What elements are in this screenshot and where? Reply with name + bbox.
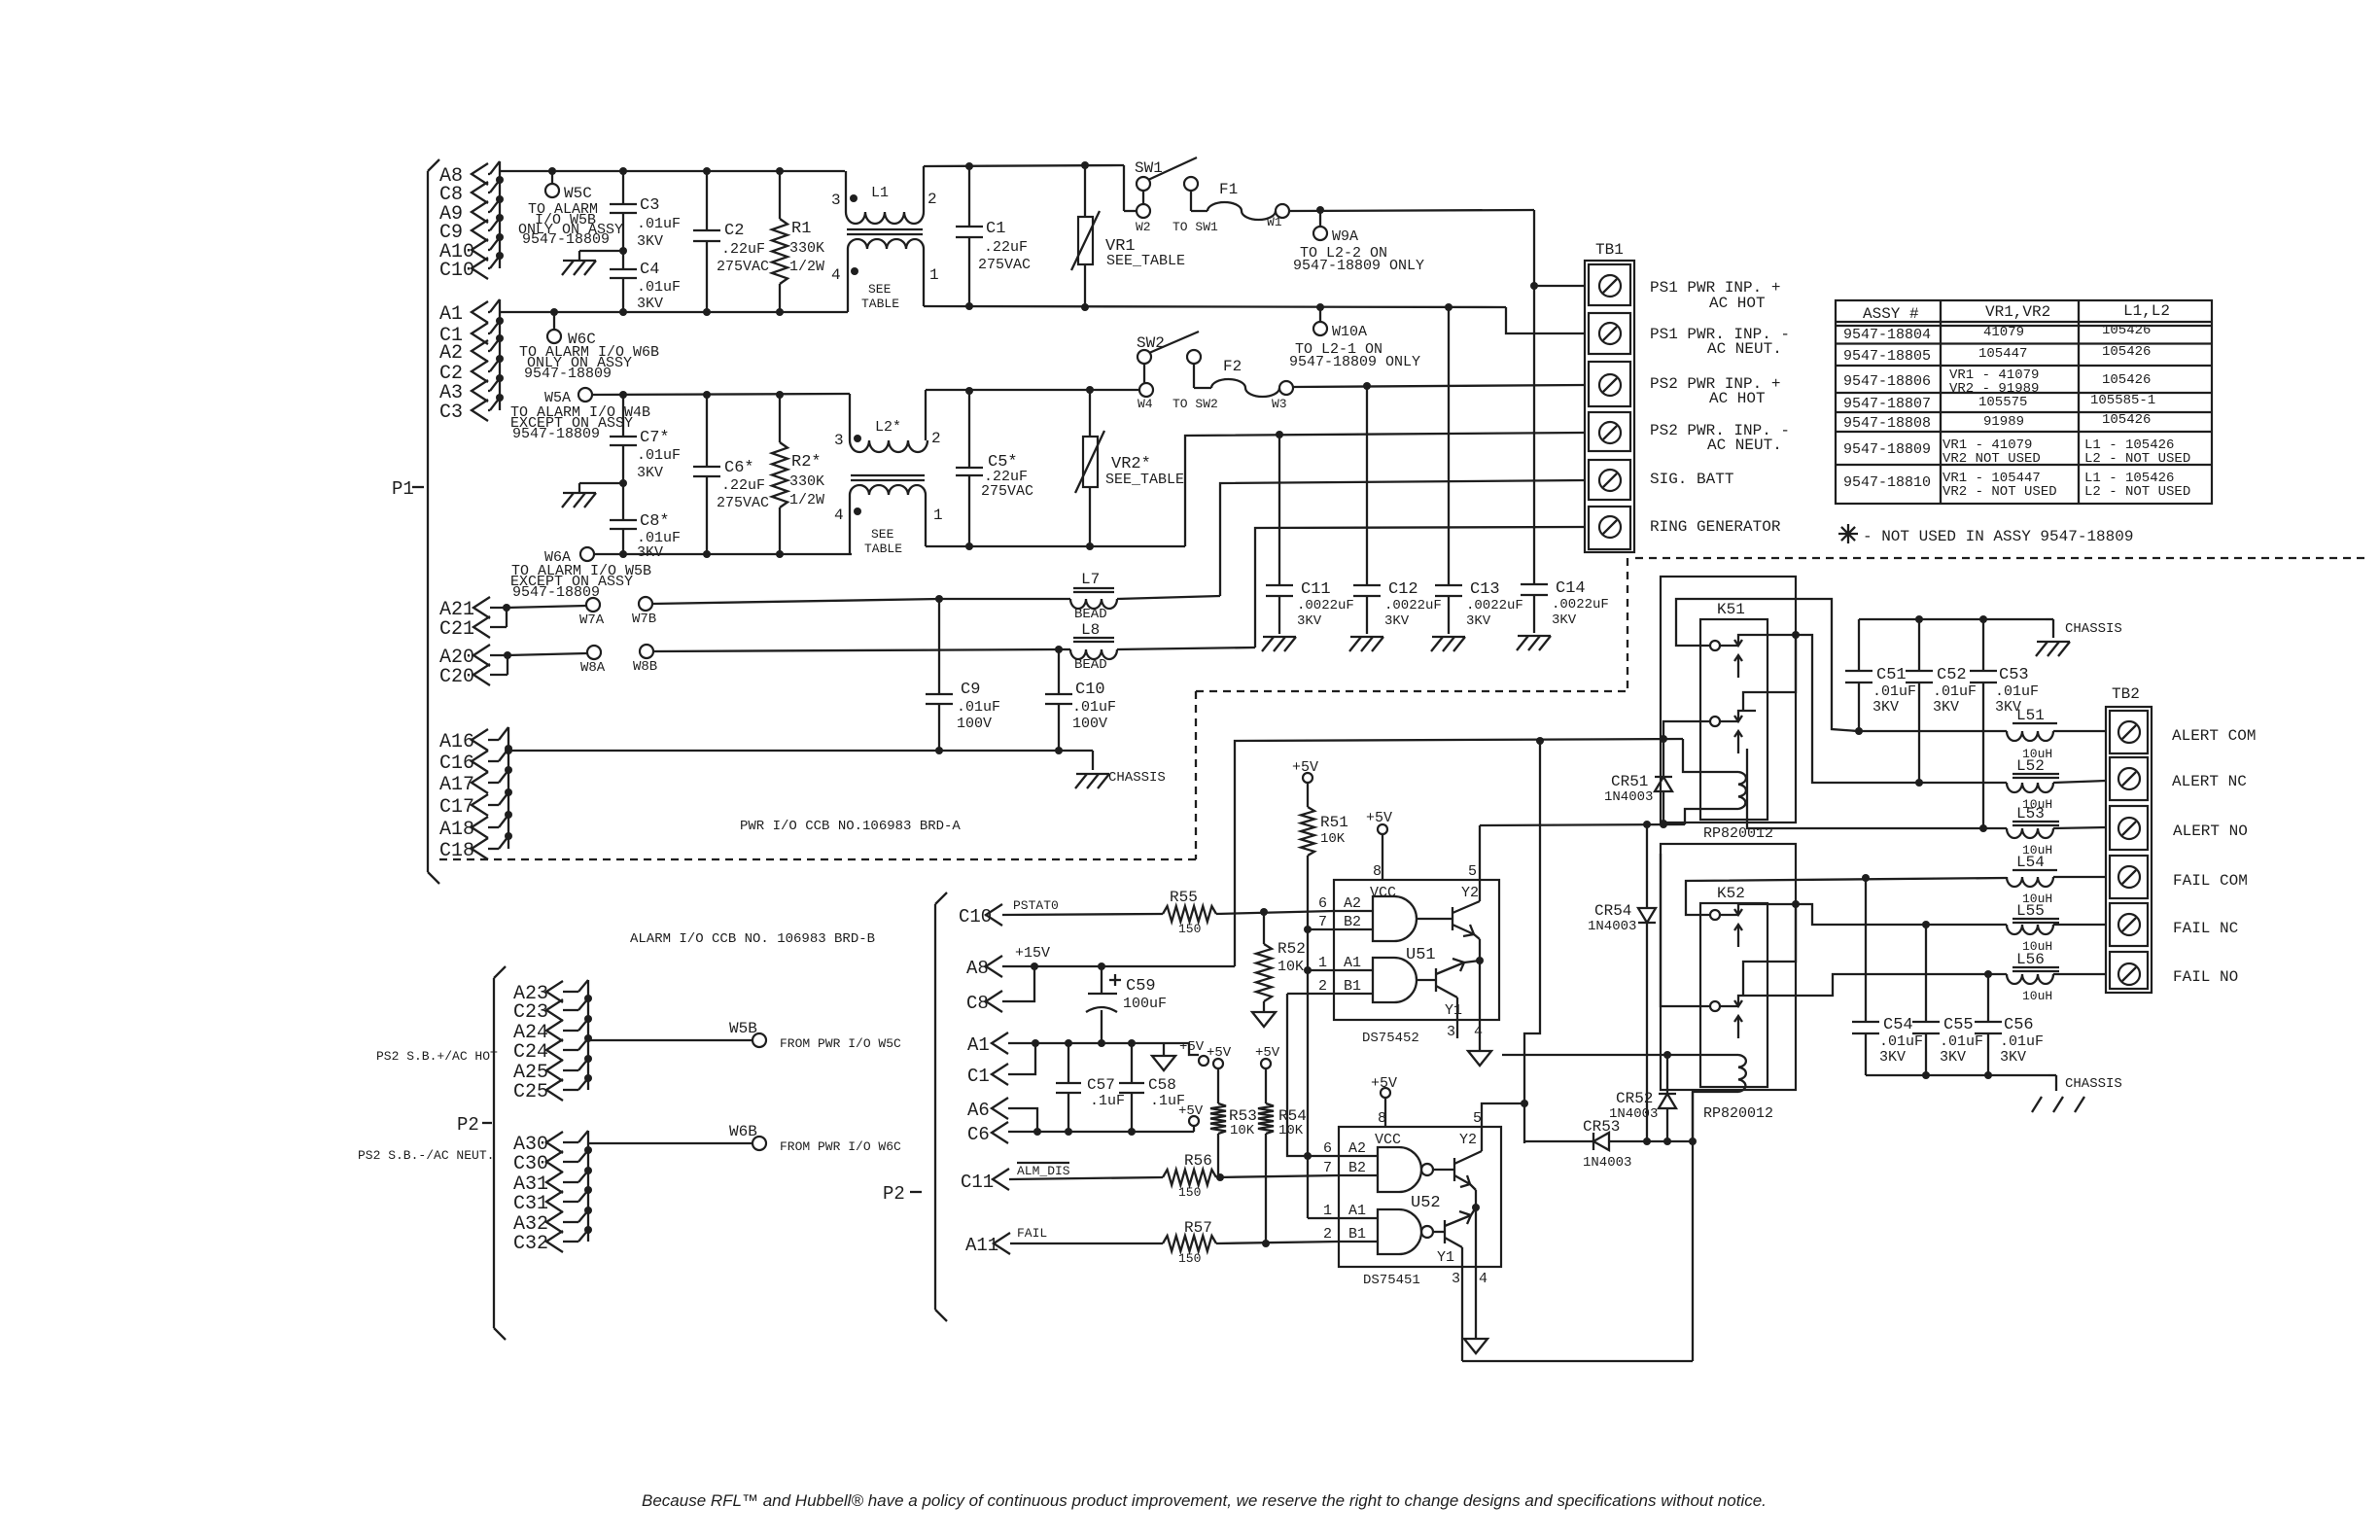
svg-text:RING GENERATOR: RING GENERATOR xyxy=(1650,518,1781,536)
svg-text:1: 1 xyxy=(929,266,939,284)
jumper W7B xyxy=(632,597,656,627)
svg-text:3KV: 3KV xyxy=(637,296,663,312)
capacitor C54 xyxy=(1852,878,1923,1075)
svg-text:3KV: 3KV xyxy=(1872,699,1899,716)
wire L1 pin1 secondary return xyxy=(924,302,1506,311)
svg-text:TO SW1: TO SW1 xyxy=(1172,220,1218,234)
svg-text:CHASSIS: CHASSIS xyxy=(1108,770,1166,786)
svg-text:VCC: VCC xyxy=(1375,1132,1401,1148)
svg-text:9547-18804: 9547-18804 xyxy=(1843,327,1931,343)
svg-text:3KV: 3KV xyxy=(1940,1049,1966,1066)
wire U51 B2 stub xyxy=(1308,928,1334,930)
capacitor C55 xyxy=(1912,925,1983,1075)
svg-text:R56: R56 xyxy=(1184,1152,1212,1170)
svg-text:L52: L52 xyxy=(2016,757,2045,775)
svg-text:C6: C6 xyxy=(967,1124,990,1145)
svg-text:3KV: 3KV xyxy=(1384,613,1410,629)
ground chassis row2 xyxy=(562,479,627,507)
svg-text:C1: C1 xyxy=(986,220,1005,238)
svg-text:CR51: CR51 xyxy=(1611,773,1648,790)
svg-text:4: 4 xyxy=(831,266,841,284)
resistor R57 xyxy=(1163,1219,1339,1266)
svg-text:3KV: 3KV xyxy=(2000,1049,2026,1066)
svg-text:ALARM I/O CCB NO. 106983 BRD-B: ALARM I/O CCB NO. 106983 BRD-B xyxy=(630,931,875,947)
svg-text:B2: B2 xyxy=(1344,914,1361,930)
U51 gate 2 AND xyxy=(1334,958,1436,1002)
transformer L1 xyxy=(831,166,939,312)
svg-text:9547-18809: 9547-18809 xyxy=(512,584,600,601)
svg-text:.01uF: .01uF xyxy=(1872,683,1916,700)
svg-text:W8B: W8B xyxy=(633,659,657,675)
svg-text:105585-1: 105585-1 xyxy=(2090,393,2155,408)
svg-text:C2: C2 xyxy=(724,222,744,240)
P2 pin A11 FAIL xyxy=(965,1226,1163,1256)
svg-text:+15V: +15V xyxy=(1015,945,1050,962)
svg-text:9547-18807: 9547-18807 xyxy=(1843,396,1931,412)
svg-text:B1: B1 xyxy=(1344,978,1361,995)
svg-text:.0022uF: .0022uF xyxy=(1384,598,1442,613)
svg-text:L51: L51 xyxy=(2016,707,2045,724)
fuse F1 xyxy=(1207,181,1289,229)
svg-text:.01uF: .01uF xyxy=(1933,683,1977,700)
svg-text:AC HOT: AC HOT xyxy=(1709,295,1766,312)
svg-text:L8: L8 xyxy=(1081,621,1100,639)
svg-text:C10: C10 xyxy=(439,260,474,282)
label RP820012 K52 xyxy=(1703,1105,1773,1122)
ground under C12 xyxy=(1349,637,1383,651)
svg-text:L2 - NOT USED: L2 - NOT USED xyxy=(2084,451,2190,467)
svg-text:150: 150 xyxy=(1178,922,1201,936)
wire C54 rail to chassis lower xyxy=(1866,1071,2048,1079)
svg-text:VR2 - NOT USED: VR2 - NOT USED xyxy=(1942,484,2057,500)
jumper W10A xyxy=(1313,307,1367,340)
svg-text:C14: C14 xyxy=(1556,579,1586,598)
svg-text:C10: C10 xyxy=(1075,681,1105,699)
label TB2 terminal names xyxy=(2172,727,2256,986)
svg-text:A2: A2 xyxy=(1344,895,1361,912)
svg-text:9547-18806: 9547-18806 xyxy=(1843,373,1931,390)
capacitor C57 xyxy=(1056,1043,1125,1132)
svg-text:3KV: 3KV xyxy=(637,465,663,481)
P2 pins A1 C1 xyxy=(967,1032,1039,1087)
P1 pins A1 C1 A2 C2 A3 C3 xyxy=(439,299,504,424)
svg-text:W4: W4 xyxy=(1137,397,1153,411)
svg-text:C56: C56 xyxy=(2004,1016,2034,1034)
svg-text:SW1: SW1 xyxy=(1135,159,1163,177)
svg-text:.01uF: .01uF xyxy=(957,699,1000,716)
svg-text:C52: C52 xyxy=(1937,666,1967,684)
resistor R51 pullup net xyxy=(1292,759,1348,1156)
P1 pins A8 C8 A9 C9 A10 C10 xyxy=(439,161,504,282)
P2 pin C11 ALM_DIS xyxy=(961,1163,1163,1193)
ground under C11 xyxy=(1262,637,1296,651)
svg-text:DS75451: DS75451 xyxy=(1363,1273,1420,1288)
svg-text:TABLE: TABLE xyxy=(864,542,902,556)
svg-text:C24: C24 xyxy=(513,1041,548,1064)
svg-text:.22uF: .22uF xyxy=(721,477,765,494)
connector P2 bracket (pwr board) xyxy=(457,966,506,1340)
svg-text:.22uF: .22uF xyxy=(721,241,765,258)
resistor R53 pullup xyxy=(1207,1045,1257,1177)
wire F1 to TB1-1 xyxy=(1289,206,1585,290)
svg-text:10K: 10K xyxy=(1278,1123,1304,1138)
svg-text:275VAC: 275VAC xyxy=(717,495,769,511)
jumper W5A with feed rail row2 xyxy=(544,388,850,406)
U52 gate 1 NAND xyxy=(1339,1147,1454,1192)
svg-text:BEAD: BEAD xyxy=(1074,607,1107,622)
U52 transistor Y1 xyxy=(1445,1204,1480,1361)
svg-text:.1uF: .1uF xyxy=(1090,1093,1125,1109)
jumper W6C xyxy=(547,312,596,348)
svg-text:SIG. BATT: SIG. BATT xyxy=(1650,471,1733,488)
svg-text:C3: C3 xyxy=(640,196,659,215)
U52 pin labels xyxy=(1323,1110,1487,1287)
wire K52 contact2 feed xyxy=(1661,854,1710,1006)
diode CR51 xyxy=(1604,739,1672,827)
switch SW1 xyxy=(1124,157,1218,234)
capacitor C12 xyxy=(1353,386,1442,634)
svg-text:3KV: 3KV xyxy=(1466,613,1491,629)
wire K52 NO throw to FAIL NC xyxy=(1743,900,2007,996)
svg-text:U52: U52 xyxy=(1411,1194,1441,1212)
svg-text:AC NEUT.: AC NEUT. xyxy=(1707,437,1782,454)
wire +15V rail xyxy=(1002,962,1235,970)
svg-text:C7*: C7* xyxy=(640,429,670,447)
wire row1 neutral to TB1-2 xyxy=(1506,307,1585,333)
label PS2 S.B.-/AC NEUT. xyxy=(358,1148,494,1163)
svg-text:SEE_TABLE: SEE_TABLE xyxy=(1105,472,1184,488)
resistor R56 xyxy=(1163,1152,1339,1200)
note TO L2-2 ON xyxy=(1293,245,1424,274)
connector P2 bracket (alarm board) xyxy=(883,892,947,1321)
svg-text:Y1: Y1 xyxy=(1437,1249,1454,1266)
P1 pins A20 C20 xyxy=(439,645,511,688)
svg-text:3KV: 3KV xyxy=(637,233,663,250)
relay K52 coil xyxy=(1667,1055,1746,1141)
svg-text:150: 150 xyxy=(1178,1185,1201,1200)
wire K51 contact2 feed jog xyxy=(1663,721,1710,739)
svg-text:330K: 330K xyxy=(789,473,824,490)
svg-text:1N4003: 1N4003 xyxy=(1588,919,1636,934)
svg-text:AC NEUT.: AC NEUT. xyxy=(1707,340,1782,358)
svg-text:.01uF: .01uF xyxy=(637,216,681,232)
svg-text:9547-18809: 9547-18809 xyxy=(522,231,610,248)
svg-text:K51: K51 xyxy=(1717,601,1745,618)
note TO ALARM I/O W5B xyxy=(518,201,623,248)
ground chassis row1 xyxy=(562,247,627,275)
svg-text:TB1: TB1 xyxy=(1595,241,1624,259)
svg-text:1/2W: 1/2W xyxy=(789,259,824,275)
svg-text:3: 3 xyxy=(1447,1024,1455,1040)
svg-text:FAIL: FAIL xyxy=(1017,1226,1047,1241)
svg-text:C9: C9 xyxy=(961,681,980,699)
fuse F2 xyxy=(1211,358,1293,411)
svg-text:L1,L2: L1,L2 xyxy=(2123,302,2170,320)
svg-text:L2*: L2* xyxy=(875,419,901,436)
svg-text:W2: W2 xyxy=(1136,220,1151,234)
label RP820012 K51 xyxy=(1703,825,1773,842)
P2 pins A30 C30 A31 C31 A32 C32 xyxy=(513,1131,592,1255)
svg-text:CHASSIS: CHASSIS xyxy=(2065,621,2122,637)
capacitor C14 xyxy=(1521,286,1609,633)
svg-text:9547-18810: 9547-18810 xyxy=(1843,474,1931,491)
diode CR54 xyxy=(1588,824,1656,1145)
svg-text:1N4003: 1N4003 xyxy=(1583,1155,1631,1171)
power +5V at A6 rail end xyxy=(1178,1103,1204,1132)
svg-text:SEE_TABLE: SEE_TABLE xyxy=(1106,253,1185,269)
svg-text:C53: C53 xyxy=(1999,666,2029,684)
svg-text:C58: C58 xyxy=(1148,1076,1176,1094)
varistor VR2 xyxy=(1075,390,1184,546)
svg-text:10uH: 10uH xyxy=(2022,989,2052,1003)
capacitor C59 polarized xyxy=(1086,966,1167,1043)
relay K52 box xyxy=(1661,844,1796,1090)
svg-text:3KV: 3KV xyxy=(1552,612,1577,628)
relay K51 contact 2 xyxy=(1710,711,1756,753)
svg-text:FAIL NC: FAIL NC xyxy=(2173,920,2238,937)
svg-text:4: 4 xyxy=(1479,1271,1487,1287)
svg-text:.01uF: .01uF xyxy=(2000,1033,2044,1050)
svg-text:105426: 105426 xyxy=(2102,412,2151,428)
svg-text:4: 4 xyxy=(834,507,844,524)
terminal block TB1 xyxy=(1585,241,1634,552)
wire U51 B1 to U52 A2 xyxy=(1287,994,1334,1156)
inductor L51 xyxy=(1859,707,2106,761)
svg-text:.22uF: .22uF xyxy=(984,239,1028,256)
wire chassis rail xyxy=(505,747,1093,754)
svg-text:RP820012: RP820012 xyxy=(1703,825,1773,842)
svg-text:C17: C17 xyxy=(439,796,474,819)
svg-text:Y2: Y2 xyxy=(1459,1132,1477,1148)
relay K51 coil xyxy=(1663,739,1746,823)
terminal block TB2 xyxy=(2106,685,2152,993)
svg-text:C11: C11 xyxy=(1301,580,1331,599)
wire +15V riser to relay feed xyxy=(1235,735,1683,966)
svg-text:3: 3 xyxy=(1452,1271,1460,1287)
wire F2 to TB1-3 xyxy=(1293,382,1585,390)
svg-text:275VAC: 275VAC xyxy=(717,259,769,275)
wire L2 secondary return xyxy=(926,542,1185,550)
capacitor C2 xyxy=(693,171,769,312)
diode CR52 xyxy=(1609,1055,1676,1145)
P2 pins A6 C6 xyxy=(967,1098,1041,1145)
svg-text:C31: C31 xyxy=(513,1193,548,1215)
svg-text:PS2 S.B.+/AC HOT: PS2 S.B.+/AC HOT xyxy=(376,1049,498,1064)
wire row2 neutral riser to TB1-4 xyxy=(1185,431,1585,546)
jumper W6B xyxy=(752,1137,901,1154)
svg-text:VR1,VR2: VR1,VR2 xyxy=(1985,303,2050,321)
svg-text:+5V: +5V xyxy=(1366,810,1392,826)
U51 transistor Y2 xyxy=(1452,825,1480,961)
svg-text:+5V: +5V xyxy=(1179,1039,1205,1055)
wire W8B to L8 xyxy=(653,646,1070,653)
svg-text:PSTAT0: PSTAT0 xyxy=(1013,898,1059,913)
svg-text:CR54: CR54 xyxy=(1594,902,1631,920)
connector P1 bracket xyxy=(392,159,439,884)
svg-text:+5V: +5V xyxy=(1371,1075,1397,1092)
svg-text:6: 6 xyxy=(1323,1140,1332,1157)
svg-text:FAIL NO: FAIL NO xyxy=(2173,968,2238,986)
capacitor C7 xyxy=(610,395,681,483)
svg-text:275VAC: 275VAC xyxy=(981,483,1033,500)
svg-text:R1: R1 xyxy=(791,220,811,238)
svg-text:DS75452: DS75452 xyxy=(1362,1031,1419,1046)
switch SW2 xyxy=(1137,332,1218,411)
svg-text:105426: 105426 xyxy=(2102,372,2151,388)
svg-text:TO SW2: TO SW2 xyxy=(1172,397,1218,411)
svg-text:A16: A16 xyxy=(439,731,474,753)
svg-text:B2: B2 xyxy=(1348,1160,1366,1176)
U51 pin4 ground xyxy=(1468,961,1491,1066)
capacitor C53 xyxy=(1970,619,2039,828)
svg-text:A1: A1 xyxy=(1348,1203,1366,1219)
svg-text:L54: L54 xyxy=(2016,854,2045,871)
wire L2 pin2 rail to SW2 xyxy=(926,386,1139,395)
svg-text:105575: 105575 xyxy=(1978,395,2027,410)
inductor L55 xyxy=(2007,902,2106,954)
svg-text:1: 1 xyxy=(1318,955,1327,971)
note TO L2-1 ON xyxy=(1289,341,1420,370)
wire row1 bottom rail xyxy=(500,308,848,316)
svg-text:1N4003: 1N4003 xyxy=(1604,789,1653,805)
svg-text:F1: F1 xyxy=(1219,181,1238,198)
svg-text:.01uF: .01uF xyxy=(1072,699,1116,716)
svg-text:5: 5 xyxy=(1473,1110,1482,1127)
svg-text:C32: C32 xyxy=(513,1233,548,1255)
svg-text:C51: C51 xyxy=(1876,666,1907,684)
svg-text:105426: 105426 xyxy=(2102,344,2151,360)
inductor L8 BEAD xyxy=(1070,621,1255,673)
svg-text:Y2: Y2 xyxy=(1461,885,1479,901)
wire K51 NO throw to ALERT NC xyxy=(1743,631,2007,787)
U52 gate 2 NAND xyxy=(1339,1209,1445,1254)
jumper W8A xyxy=(507,646,606,676)
label PS2 S.B.+/AC HOT xyxy=(376,1049,498,1064)
wire to jumper W5B xyxy=(588,1020,757,1040)
svg-text:C11: C11 xyxy=(961,1172,994,1193)
wire rail A6 xyxy=(1008,1128,1194,1136)
relay K51 contact 1 xyxy=(1710,635,1756,678)
ic U51 DS75452 box xyxy=(1334,880,1499,1046)
inductor L53 xyxy=(2007,805,2106,857)
svg-text:A1: A1 xyxy=(967,1034,990,1056)
wire logic rail A1 xyxy=(1008,1039,1189,1047)
wire U51 A1 stub xyxy=(1308,969,1334,971)
svg-text:3KV: 3KV xyxy=(1297,613,1322,629)
wire L7 to SIG BATT xyxy=(1220,480,1585,596)
svg-text:9547-18809: 9547-18809 xyxy=(512,426,600,442)
svg-text:A1: A1 xyxy=(1344,955,1361,971)
svg-text:.0022uF: .0022uF xyxy=(1466,598,1523,613)
svg-text:C8*: C8* xyxy=(640,512,670,531)
svg-text:U51: U51 xyxy=(1406,946,1436,964)
ground under C14 xyxy=(1517,636,1551,650)
capacitor C52 xyxy=(1906,619,1977,783)
svg-text:CHASSIS: CHASSIS xyxy=(2065,1076,2122,1092)
svg-text:F2: F2 xyxy=(1223,358,1242,375)
wire R51 net to U52 A2 and A1 xyxy=(1304,1152,1339,1218)
svg-text:TB2: TB2 xyxy=(2112,685,2140,703)
wire U52 Y2 collector to K52 coil xyxy=(1502,1051,1671,1059)
capacitor C3 xyxy=(610,171,681,251)
svg-text:VR2 NOT USED: VR2 NOT USED xyxy=(1942,451,2041,467)
svg-text:9547-18809 ONLY: 9547-18809 ONLY xyxy=(1289,354,1420,370)
svg-text:TABLE: TABLE xyxy=(861,297,899,311)
svg-text:PS2 S.B.-/AC NEUT.: PS2 S.B.-/AC NEUT. xyxy=(358,1148,494,1163)
relay K52 contact 1 xyxy=(1710,904,1756,947)
svg-text:W10A: W10A xyxy=(1332,324,1367,340)
svg-text:ALM_DIS: ALM_DIS xyxy=(1017,1164,1070,1178)
wire K51 NC throw to ALERT NO xyxy=(1747,749,2007,832)
capacitor C13 xyxy=(1435,307,1523,634)
svg-text:W8A: W8A xyxy=(580,660,606,676)
svg-text:C4: C4 xyxy=(640,261,659,279)
jumper W7A xyxy=(507,598,605,628)
svg-text:A17: A17 xyxy=(439,774,474,796)
resistor R55 xyxy=(1163,889,1334,936)
svg-text:.0022uF: .0022uF xyxy=(1297,598,1354,613)
capacitor C4 xyxy=(610,251,681,312)
svg-text:B1: B1 xyxy=(1348,1226,1366,1242)
resistor R1 xyxy=(772,171,824,312)
svg-text:4: 4 xyxy=(1474,1024,1483,1040)
svg-text:9547-18808: 9547-18808 xyxy=(1843,415,1931,432)
svg-text:L56: L56 xyxy=(2016,951,2045,968)
svg-text:C1: C1 xyxy=(967,1066,990,1087)
svg-text:A2: A2 xyxy=(439,342,463,365)
svg-text:C13: C13 xyxy=(1470,580,1500,599)
svg-text:100V: 100V xyxy=(1072,716,1107,732)
svg-text:2: 2 xyxy=(1323,1226,1332,1242)
svg-text:RP820012: RP820012 xyxy=(1703,1105,1773,1122)
svg-text:P2: P2 xyxy=(457,1114,479,1136)
svg-text:C6*: C6* xyxy=(724,459,754,477)
svg-text:C21: C21 xyxy=(439,618,474,641)
relay K51 box xyxy=(1661,577,1796,822)
relay K52 contact 2 xyxy=(1710,996,1756,1038)
svg-text:W6B: W6B xyxy=(729,1123,757,1140)
svg-text:105426: 105426 xyxy=(2102,323,2151,338)
svg-text:AC HOT: AC HOT xyxy=(1709,390,1766,407)
svg-text:C57: C57 xyxy=(1087,1076,1115,1094)
svg-text:W7A: W7A xyxy=(579,612,605,628)
wire U52 Y1 loop to CR53 net xyxy=(1462,1360,1693,1362)
svg-text:3KV: 3KV xyxy=(1933,699,1959,716)
note NOT USED IN ASSY xyxy=(1838,524,2133,545)
svg-text:2: 2 xyxy=(927,191,937,208)
wire row1 top rail xyxy=(500,167,845,175)
ground triangle on A1 rail xyxy=(1152,1043,1175,1070)
svg-text:R55: R55 xyxy=(1170,889,1198,906)
svg-text:C12: C12 xyxy=(1388,580,1418,599)
svg-text:10K: 10K xyxy=(1277,959,1304,975)
inductor L56 xyxy=(2007,951,2106,1003)
svg-text:100uF: 100uF xyxy=(1123,996,1167,1012)
U51 gate 1 AND xyxy=(1334,896,1452,941)
svg-text:1/2W: 1/2W xyxy=(789,492,824,508)
wire L8 to RING GENERATOR xyxy=(1255,527,1585,647)
svg-text:.01uF: .01uF xyxy=(637,447,681,464)
ground chassis lower right xyxy=(2032,1075,2122,1112)
svg-text:10K: 10K xyxy=(1230,1123,1255,1138)
wire C51 rail to chassis xyxy=(1859,615,2046,623)
svg-text:P2: P2 xyxy=(883,1183,905,1205)
svg-text:A8: A8 xyxy=(966,958,989,979)
U51 transistor Y1 xyxy=(1436,957,1484,1038)
P2 pin C10 PSTAT0 xyxy=(959,898,1163,927)
wire K51 contact1 to ALERT COM xyxy=(1676,599,1858,731)
resistor R54 pullup xyxy=(1255,1045,1307,1243)
